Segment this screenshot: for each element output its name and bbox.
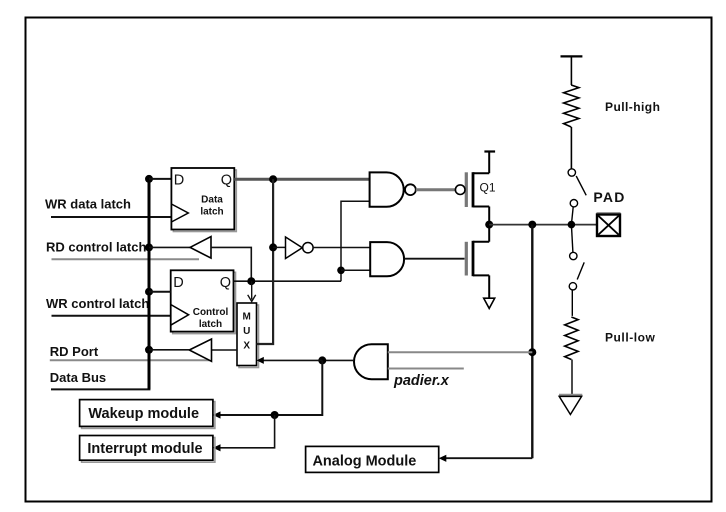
wire data bus vertical [148,179,151,390]
pad PAD cell [597,213,621,236]
node junction bus-RD port buffer [145,346,153,354]
module Wakeup module box [80,400,215,429]
module Interrupt module box [80,436,215,463]
node junction rail-analog net [528,221,536,229]
node junction bus-D control latch [145,288,153,296]
wire control latch Q line [234,280,342,282]
wire RD control buffer input from control latch Q [211,247,251,281]
wire AND U6 output [322,359,354,361]
svg-text:X: X [243,341,250,352]
wire inverter output to AND upper input [313,247,370,249]
wire WR control latch line [52,315,171,317]
wire MUX output to RD port buffer [212,349,238,351]
mux MUX block [237,303,259,368]
buffer RD control latch read buffer [190,237,211,259]
svg-text:Pull-low: Pull-low [605,331,656,345]
node junction bus-D data latch [145,175,153,183]
wire RD control latch line [52,258,200,260]
svg-text:Analog Module: Analog Module [312,453,416,469]
wire D input data latch [149,178,171,180]
resistor R1 pull-high [564,85,579,127]
wire WR data latch line [51,216,171,218]
ground NMOS source [484,298,495,308]
wire NAND output to PMOS gate [416,188,456,191]
wire AND U6 lower input padier.x [388,368,464,370]
svg-text:Pull-high: Pull-high [605,100,660,114]
wire pad rail [489,224,597,226]
svg-text:D: D [174,173,184,189]
svg-text:Interrupt module: Interrupt module [87,441,202,457]
node junction control Q / mux select [247,277,255,285]
latch U2 control latch [171,270,236,333]
svg-text:Q: Q [221,173,232,189]
latch U1 data latch [171,168,236,232]
wire interrupt net [220,415,275,448]
switch S2 pull-low switch [571,225,573,253]
wire wakeup net [220,360,322,415]
wire RD port buffer output [149,349,189,351]
wire RD control buffer output [149,246,190,248]
node junction AND lower input [337,267,345,275]
and gate U5 [370,242,404,276]
wire AND output to NMOS gate [404,258,464,260]
node junction Q rail [269,175,277,183]
svg-text:WR control latch: WR control latch [46,296,149,311]
node junction input AND tap [528,348,536,356]
wire AND U6 upper input from pad [388,351,533,353]
svg-text:M: M [243,312,251,323]
wire resistor to switch [570,127,572,169]
svg-text:Data: Data [201,194,223,205]
svg-text:Q: Q [220,275,231,291]
wire RD Port line [50,359,212,361]
module Analog Module box [306,446,439,472]
svg-text:WR data latch: WR data latch [45,197,131,212]
and gate U6 input enable (mirrored) [354,344,388,379]
wire AND lower input [341,269,370,271]
svg-text:D: D [173,275,183,291]
wire resistor to ground [571,360,573,395]
node junction AND U6 output [318,356,326,364]
wire data latch Q rail [234,178,369,181]
transistor Q1 PMOS [455,152,495,225]
svg-text:Control: Control [193,307,229,318]
svg-text:Wakeup module: Wakeup module [88,406,199,422]
svg-text:Q1: Q1 [480,181,496,195]
switch S1 pull-high switch [568,169,575,176]
wire control Q net up to NAND lower input [341,201,370,281]
svg-text:latch: latch [200,206,223,217]
node junction wakeup-interrupt [271,411,279,419]
node junction output node [485,221,493,229]
power VDD pull-high bar [561,55,583,57]
wire D input control latch [149,291,171,293]
svg-text:U: U [243,326,250,337]
wire analog/input vertical net [531,225,533,459]
wire data latch Q down into MUX right side [257,179,274,344]
svg-text:RD Port: RD Port [50,344,99,359]
wire Data Bus line [51,388,150,390]
nand gate U4 [370,172,404,206]
svg-text:RD control latch: RD control latch [46,240,146,255]
wire to MUX right input with arrow [263,359,323,361]
svg-text:PAD: PAD [593,189,625,205]
wire inverter input [273,246,285,248]
node junction rail-switch column [568,221,576,229]
wire control Q to MUX top with arrow [251,281,253,299]
ground pull-low ground [559,395,582,415]
node junction bus-RD control buffer [145,243,153,251]
wire analog module net [446,457,532,459]
buffer RD port read buffer [189,339,211,361]
svg-text:Data Bus: Data Bus [50,370,106,385]
svg-text:latch: latch [199,319,222,330]
node junction inverter input [269,243,277,251]
svg-text:padier.x: padier.x [393,373,450,389]
resistor R2 pull-low [565,317,578,360]
inverter U3 [286,237,303,259]
transistor Q2 NMOS [466,225,489,299]
